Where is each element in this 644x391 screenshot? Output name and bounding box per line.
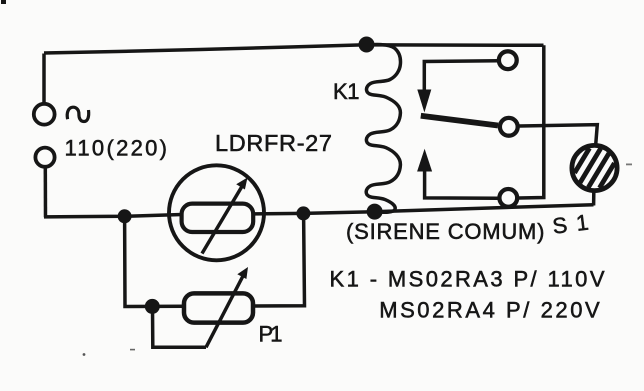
relay NO arrow stem + wire [425,170,498,198]
relay NO arrow head [417,149,432,172]
terminal AC bottom [35,148,54,167]
siren hatch lines [575,148,615,188]
relay NC arrow head [417,90,431,113]
svg-text:110(220): 110(220) [65,135,168,160]
siren S1 circle [572,145,617,190]
speck bottom dash [130,349,135,351]
junction node P1 left [145,299,160,314]
wire P1 right riser [251,215,305,306]
wire left vertical bottom [44,167,48,218]
svg-text:P1: P1 [259,322,283,347]
svg-text:K1 - MS02RA3 P/ 110V: K1 - MS02RA3 P/ 110V [330,267,605,292]
speck bottom-left dot [83,353,86,356]
LDR body [182,204,254,232]
relay contact middle circle [500,118,518,136]
speck right dash [626,164,632,166]
wire P1 left drop [125,216,185,306]
wire P1 wiper return [153,307,207,347]
terminal AC top [34,104,55,125]
P1 arrow head [237,267,248,279]
LDR arrow [202,186,243,254]
wire common to siren [520,125,598,144]
AC sine symbol [67,107,89,121]
relay coil K1 [366,45,400,213]
wire bottom contact to right vertical [519,45,544,198]
junction node coil top [359,37,375,53]
svg-text:S1: S1 [551,210,590,239]
LDR circle [169,165,264,260]
svg-text:LDRFR-27: LDRFR-27 [215,130,332,156]
svg-text:K1: K1 [333,79,360,104]
wire siren bottom [592,193,596,206]
potentiometer P1 wiper arrow [206,275,244,347]
svg-text:(SIRENE COMUM): (SIRENE COMUM) [346,219,545,244]
junction node coil bottom [367,204,383,220]
svg-text:MS02RA4 P/ 220V: MS02RA4 P/ 220V [379,298,600,323]
wire left vertical top [42,54,46,105]
wire bottom rail left [44,215,182,217]
wire bottom rail right [254,205,594,214]
relay contact top circle [499,51,517,69]
relay NC wire + arrow stem [424,61,498,91]
relay contact bottom circle [499,189,517,207]
speck top-left [1,0,6,4]
wire top rail [44,45,544,53]
relay common lever [421,116,498,126]
LDR arrow head [236,178,247,190]
junction node LDR right [296,206,310,220]
potentiometer P1 body [184,293,253,322]
junction node left [118,209,132,223]
